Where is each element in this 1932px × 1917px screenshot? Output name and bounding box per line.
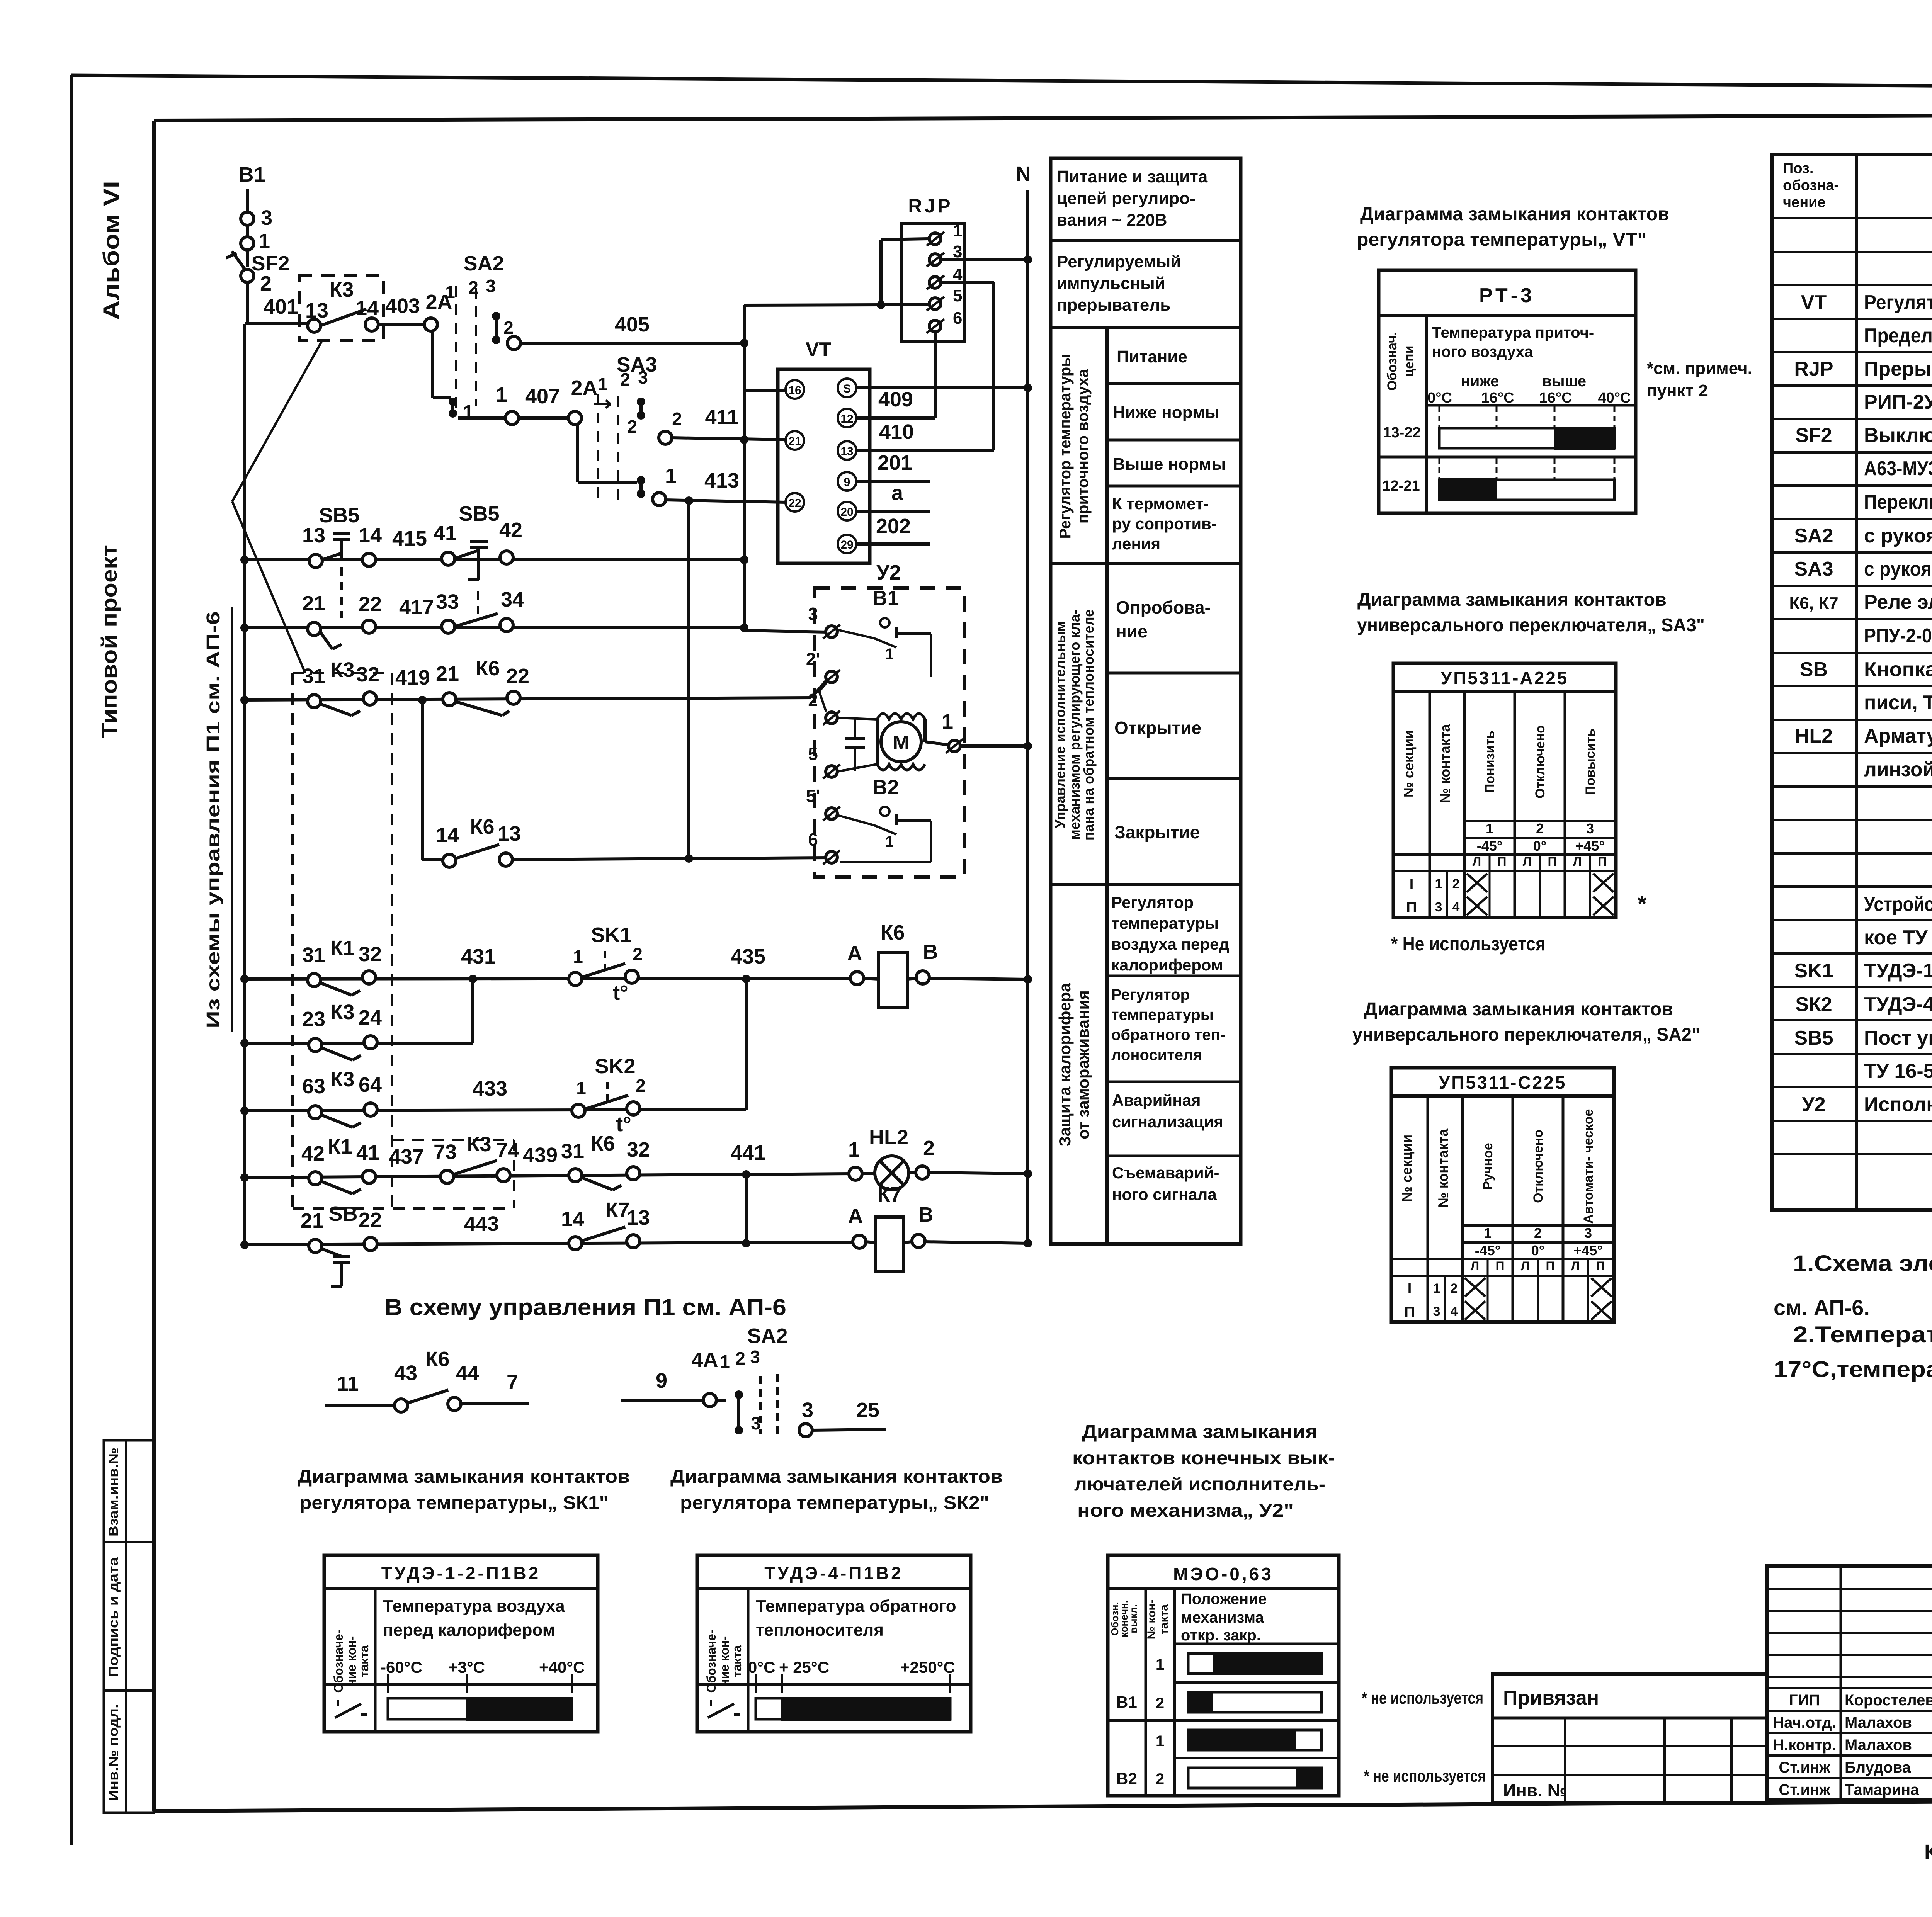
svg-text:К3: К3	[330, 658, 355, 681]
contact bar 13-22	[1439, 428, 1614, 448]
svg-text:№ секции: № секции	[1399, 1135, 1415, 1202]
vertical link 413 to closing row	[687, 501, 690, 858]
svg-text:409: 409	[878, 388, 913, 411]
svg-text:Отключено: Отключено	[1531, 1130, 1546, 1203]
svg-text:N: N	[1016, 162, 1031, 185]
svg-text:К1: К1	[330, 936, 355, 960]
svg-text:3: 3	[802, 1399, 813, 1422]
svg-text:А: А	[847, 942, 862, 965]
svg-text:1: 1	[1484, 1225, 1492, 1241]
svg-text:22: 22	[359, 1208, 382, 1232]
svg-text:1: 1	[1433, 1281, 1440, 1296]
alarm row : K1 42-41 / 437 / K3 73-74 / 439 / K6 31-32 / 441 / lamp HL2	[245, 1174, 851, 1178]
svg-text:63: 63	[302, 1075, 325, 1098]
signal reset row : SB 21-22 / 443 / K7 14-13 / coil K7	[245, 1242, 853, 1245]
svg-text:443: 443	[464, 1212, 499, 1236]
svg-text:В2: В2	[1116, 1769, 1137, 1788]
svg-text:SВ: SВ	[1800, 658, 1828, 681]
svg-text:2: 2	[260, 272, 272, 295]
svg-text:Повысить: Повысить	[1583, 729, 1598, 795]
svg-text:от замораживания: от замораживания	[1074, 990, 1092, 1139]
svg-text:№ контакта: № контакта	[1437, 724, 1453, 804]
VT pin 13	[838, 441, 856, 460]
bus: left vertical feeder	[243, 324, 246, 1245]
svg-text:*: *	[1638, 891, 1647, 917]
svg-text:Опробова-: Опробова-	[1116, 597, 1211, 617]
U2 terminal jog 2p-2	[819, 683, 826, 692]
svg-text:Пост управления кнопочный ПКЕ: Пост управления кнопочный ПКЕ 212-2У3	[1864, 1027, 1932, 1049]
RJP terminal 5	[929, 298, 941, 309]
svg-text:ТУДЭ-4- П1В2: ТУДЭ-4- П1В2	[1864, 993, 1932, 1016]
svg-text:воздуха перед: воздуха перед	[1111, 935, 1229, 953]
svg-text:импульсный: импульсный	[1057, 274, 1165, 293]
test row 21-22 / wire 417	[245, 626, 744, 629]
svg-text:Управление исполнительным: Управление исполнительным	[1052, 621, 1068, 828]
svg-text:такта: такта	[1158, 1604, 1170, 1635]
svg-text:SF2: SF2	[251, 252, 289, 275]
svg-text:А: А	[848, 1205, 863, 1228]
stamp column (Взам.инв.№ / Подпись и дата / Инв.№ подл.)	[104, 1440, 154, 1813]
svg-text:К6: К6	[425, 1348, 450, 1371]
RJP terminal 4	[929, 277, 941, 288]
svg-text:ТУ 16-542.006-83: ТУ 16-542.006-83	[1864, 1060, 1932, 1083]
heater-regulator row : K1 31-32 / wire 431 / SK1 / wire 435 / coil K6	[245, 978, 851, 979]
svg-text:Регулятор: Регулятор	[1111, 893, 1194, 911]
svg-text:Питание: Питание	[1117, 347, 1187, 366]
wire 405	[520, 342, 744, 345]
svg-text:3: 3	[486, 276, 496, 296]
svg-text:1: 1	[953, 221, 962, 240]
svg-text:202: 202	[876, 515, 911, 538]
svg-text:такта: такта	[730, 1645, 744, 1677]
interlock row : contact K3 23-24	[245, 1042, 473, 1045]
svg-text:ГИП: ГИП	[1789, 1692, 1820, 1709]
return-water row : contact K3 63-64 / wire 433 / SK2	[245, 1110, 746, 1111]
svg-text:29: 29	[840, 539, 853, 551]
svg-text:К6: К6	[470, 815, 495, 838]
svg-text:ного сигнала: ного сигнала	[1112, 1185, 1217, 1203]
VT pin 20	[838, 502, 856, 520]
svg-text:21: 21	[302, 592, 325, 615]
svg-text:1: 1	[576, 1078, 586, 1098]
svg-text:Ручное: Ручное	[1481, 1143, 1495, 1190]
svg-text:ру сопротив-: ру сопротив-	[1112, 515, 1217, 533]
svg-text:16°С: 16°С	[1481, 390, 1514, 406]
svg-text:1: 1	[885, 833, 894, 850]
svg-text:41: 41	[434, 522, 457, 545]
U2 terminal 3	[826, 626, 837, 637]
svg-text:универсального переключателя„: универсального переключателя„ SA3"	[1357, 615, 1705, 636]
svg-text:433: 433	[473, 1077, 507, 1100]
actuator U2 (dashed box)	[815, 588, 964, 877]
svg-text:откр. закр.: откр. закр.	[1181, 1627, 1261, 1644]
svg-text:Прерыватель регулируемый импул: Прерыватель регулируемый импульсный	[1864, 358, 1932, 380]
svg-text:К7: К7	[605, 1198, 630, 1222]
svg-text:2: 2	[627, 416, 637, 437]
svg-text:2: 2	[1156, 1771, 1164, 1788]
svg-text:ние: ние	[1116, 621, 1148, 641]
svg-text:Подпись и дата: Подпись и дата	[106, 1557, 121, 1677]
svg-text:3: 3	[751, 1413, 761, 1433]
svg-text:13: 13	[498, 822, 521, 845]
svg-text:403: 403	[385, 294, 420, 318]
RJP terminal 6	[929, 320, 941, 332]
svg-text:К3: К3	[330, 278, 354, 301]
svg-text:44: 44	[456, 1361, 479, 1385]
svg-text:ного воздуха: ного воздуха	[1432, 343, 1533, 360]
svg-text:SВ5: SВ5	[1794, 1027, 1833, 1049]
inner drawing frame	[154, 114, 1932, 121]
U2 capacitor	[837, 718, 877, 719]
svg-text:-60°С: -60°С	[381, 1658, 422, 1676]
svg-text:Регулятор: Регулятор	[1111, 986, 1190, 1003]
svg-text:SK1: SK1	[1794, 960, 1833, 982]
svg-text:12-21: 12-21	[1382, 478, 1420, 494]
svg-text:0°С: 0°С	[748, 1658, 776, 1676]
svg-text:К3: К3	[330, 1068, 355, 1091]
svg-text:такта: такта	[357, 1645, 371, 1677]
svg-text:32: 32	[359, 943, 382, 966]
svg-text:контактов конечных вык-: контактов конечных вык-	[1072, 1448, 1335, 1468]
svg-text:У2: У2	[1802, 1093, 1825, 1116]
svg-text:приточного воздуха: приточного воздуха	[1075, 369, 1092, 523]
svg-text:SК2: SК2	[1795, 993, 1832, 1016]
svg-text:ТУДЭ-1-2-П1В2: ТУДЭ-1-2-П1В2	[381, 1563, 541, 1583]
svg-text:+40°С: +40°С	[539, 1658, 585, 1676]
svg-text:415: 415	[392, 527, 427, 550]
svg-text:Ниже нормы: Ниже нормы	[1113, 403, 1219, 422]
svg-text:Ст.инж: Ст.инж	[1779, 1781, 1830, 1798]
wire VT-S to N	[856, 386, 1028, 389]
svg-text:407: 407	[525, 385, 560, 408]
svg-text:№ кон-: № кон-	[1145, 1600, 1158, 1640]
svg-text:Устройство терморегулирующее д: Устройство терморегулирующее дилатометри…	[1864, 893, 1932, 916]
svg-text:лючателей исполнитель-: лючателей исполнитель-	[1074, 1474, 1325, 1495]
svg-text:В2: В2	[872, 776, 899, 799]
RJP terminal 1	[929, 233, 941, 245]
svg-text:выше: выше	[1542, 373, 1586, 390]
svg-text:П: П	[1548, 855, 1557, 868]
svg-text:14: 14	[436, 824, 459, 847]
riser node 405/411	[743, 305, 746, 631]
svg-text:I: I	[1410, 876, 1414, 892]
svg-text:К6: К6	[881, 921, 905, 944]
svg-text:лоносителя: лоносителя	[1111, 1047, 1202, 1064]
svg-text:1: 1	[665, 464, 677, 488]
svg-text:* не используется: * не используется	[1364, 1767, 1486, 1786]
svg-text:SB5: SB5	[319, 504, 359, 527]
svg-text:14: 14	[359, 524, 382, 547]
svg-text:Диаграмма замыкания контактов: Диаграмма замыкания контактов	[670, 1467, 1003, 1487]
svg-text:Температура приточ-: Температура приточ-	[1432, 324, 1594, 341]
svg-text:5': 5'	[806, 786, 820, 806]
svg-text:Обознач.: Обознач.	[1385, 332, 1400, 391]
svg-text:В1: В1	[872, 586, 899, 610]
svg-text:Съемаварий-: Съемаварий-	[1112, 1164, 1219, 1182]
svg-text:Регулятор температуры: Регулятор температуры	[1057, 354, 1074, 539]
svg-text:Л: Л	[1523, 855, 1531, 868]
svg-text:401: 401	[264, 295, 298, 318]
terminal block RJP	[901, 223, 964, 341]
wire 201	[856, 480, 930, 483]
svg-text:410: 410	[879, 420, 914, 444]
svg-text:2: 2	[808, 690, 818, 710]
svg-text:пункт 2: пункт 2	[1647, 381, 1708, 400]
svg-text:64: 64	[359, 1073, 382, 1096]
svg-text:2': 2'	[806, 649, 820, 669]
svg-text:Л: Л	[1573, 855, 1582, 868]
wire down to SA3 position 1	[576, 423, 579, 482]
svg-text:Закрытие: Закрытие	[1114, 822, 1200, 842]
wire from 2A down to SA2 position 1	[431, 331, 434, 398]
svg-text:0°: 0°	[1533, 838, 1546, 854]
svg-text:1: 1	[445, 282, 455, 302]
title block	[1767, 1566, 1932, 1800]
svg-text:Диаграмма замыкания контактов: Диаграмма замыкания контактов	[1360, 204, 1669, 224]
svg-text:цепей регулиро-: цепей регулиро-	[1057, 189, 1196, 208]
svg-text:с рукояткой овальной формы УП: с рукояткой овальной формы УП5311-С225	[1864, 525, 1932, 547]
svg-text:2: 2	[923, 1137, 935, 1160]
svg-text:405: 405	[615, 313, 650, 336]
svg-text:437: 437	[389, 1145, 424, 1168]
svg-text:SF2: SF2	[1795, 424, 1832, 447]
svg-text:Диаграмма замыкания контактов: Диаграмма замыкания контактов	[298, 1467, 630, 1487]
wire 409 : RJP-6 to VT-12	[934, 332, 937, 418]
svg-text:24: 24	[359, 1006, 382, 1029]
diagram table UP5311-A225	[1393, 663, 1616, 918]
svg-text:431: 431	[461, 945, 496, 968]
svg-text:22: 22	[788, 497, 801, 510]
svg-text:21: 21	[301, 1209, 324, 1232]
VT pin 16	[786, 380, 804, 399]
svg-text:7: 7	[507, 1371, 518, 1394]
contact bar 12-21	[1439, 480, 1614, 500]
svg-text:1: 1	[1156, 1656, 1164, 1673]
svg-text:SA2: SA2	[1794, 525, 1833, 547]
svg-text:температуры: температуры	[1111, 1006, 1214, 1023]
svg-text:* Не используется: * Не используется	[1391, 933, 1546, 955]
svg-text:Кнопка КЕ-011У3, исп. 2, кра: Кнопка КЕ-011У3, исп. 2, красный, без на…	[1864, 658, 1932, 681]
svg-text:419: 419	[395, 666, 430, 689]
svg-text:П: П	[1598, 855, 1607, 868]
svg-text:цепи: цепи	[1402, 345, 1417, 377]
svg-text:2: 2	[503, 318, 514, 338]
svg-text:43: 43	[394, 1361, 417, 1385]
node 2 of SA3 / wire 411	[659, 431, 672, 444]
breaker SF2	[232, 251, 246, 270]
svg-text:регулятора температуры„ SК2": регулятора температуры„ SК2"	[680, 1493, 989, 1513]
svg-text:Из схемы управления П1 см. АП-: Из схемы управления П1 см. АП-6	[203, 611, 224, 1028]
svg-text:ТУДЭ-1- 2 - П1В2: ТУДЭ-1- 2 - П1В2	[1864, 960, 1932, 982]
svg-text:ние кон-: ние кон-	[718, 1636, 731, 1687]
svg-text:9: 9	[844, 476, 850, 489]
svg-text:К6: К6	[591, 1132, 615, 1155]
svg-text:Л: Л	[1471, 1259, 1479, 1273]
svg-text:Малахов: Малахов	[1845, 1737, 1912, 1754]
svg-text:I: I	[1408, 1281, 1412, 1297]
svg-text:73: 73	[434, 1140, 457, 1164]
VT pin S	[838, 379, 856, 397]
svg-text:Выше нормы: Выше нормы	[1113, 455, 1226, 474]
svg-text:Взам.инв.№: Взам.инв.№	[106, 1448, 121, 1536]
svg-text:-45°: -45°	[1475, 1242, 1500, 1258]
svg-text:Температура обратного: Температура обратного	[756, 1597, 956, 1616]
svg-text:П: П	[1496, 1259, 1505, 1273]
svg-text:К6: К6	[476, 657, 500, 680]
svg-text:33: 33	[436, 590, 459, 614]
svg-text:Выключатель автоматический одн: Выключатель автоматический однополюсный	[1864, 424, 1932, 447]
svg-text:Блудова: Блудова	[1845, 1759, 1911, 1776]
svg-text:1: 1	[463, 401, 474, 424]
svg-text:3: 3	[261, 206, 272, 229]
svg-text:2.Температура приточного воз: 2.Температура приточного воздуха для П7-…	[1793, 1322, 1932, 1347]
svg-text:SA2: SA2	[747, 1324, 787, 1348]
svg-text:Предел регулирования 0-40°С,ТУ: Предел регулирования 0-40°С,ТУ25-02.202.…	[1864, 325, 1932, 347]
svg-text:0°: 0°	[1531, 1242, 1544, 1258]
svg-text:с рукояткой револьверной формы: с рукояткой револьверной формы УП5311-А2…	[1864, 558, 1932, 580]
svg-text:0°С: 0°С	[1427, 390, 1452, 406]
svg-text:Диаграмма замыкания контактов: Диаграмма замыкания контактов	[1364, 999, 1673, 1020]
svg-text:П: П	[1596, 1259, 1605, 1273]
svg-text:У2: У2	[876, 561, 901, 584]
svg-text:Аварийная: Аварийная	[1112, 1091, 1201, 1109]
svg-text:1: 1	[720, 1351, 730, 1371]
svg-text:VТ: VТ	[1801, 291, 1827, 314]
svg-text:1: 1	[496, 383, 507, 406]
node 2A	[424, 318, 437, 331]
svg-text:температуры: температуры	[1111, 914, 1219, 932]
svg-text:Поз.: Поз.	[1783, 160, 1813, 177]
svg-text:5: 5	[808, 744, 818, 764]
svg-text:№ контакта: № контакта	[1435, 1128, 1451, 1208]
svg-text:1: 1	[942, 710, 953, 733]
svg-text:УП5311-С225: УП5311-С225	[1439, 1072, 1567, 1093]
svg-text:42: 42	[301, 1142, 325, 1165]
svg-text:4: 4	[1451, 1304, 1458, 1319]
diagram table TUDE-4-P1V2 (SK2)	[697, 1555, 971, 1732]
diagram table UP5311-C225	[1391, 1068, 1614, 1322]
svg-text:13: 13	[302, 524, 325, 547]
svg-text:УП5311-А225: УП5311-А225	[1441, 668, 1569, 688]
VT pin 12	[838, 409, 856, 427]
svg-text:+ 25°С: + 25°С	[779, 1658, 829, 1676]
diagram table PT-3	[1379, 270, 1636, 513]
wire 403	[378, 323, 425, 326]
svg-text:+45°: +45°	[1573, 1242, 1602, 1258]
svg-text:механизмом регулирующего кла-: механизмом регулирующего кла-	[1067, 610, 1083, 840]
dashed relay boundary K3	[293, 672, 392, 674]
svg-text:Арматура светосигнальная с кр: Арматура светосигнальная с красной	[1864, 725, 1932, 747]
svg-text:2: 2	[620, 369, 630, 389]
svg-text:Л: Л	[1473, 855, 1481, 868]
svg-text:SA2: SA2	[463, 252, 504, 275]
wire 202	[856, 542, 930, 546]
svg-text:П: П	[1406, 899, 1417, 916]
svg-text:2: 2	[1156, 1695, 1164, 1712]
svg-text:3: 3	[1586, 821, 1594, 836]
svg-text:13: 13	[627, 1206, 650, 1229]
svg-text:сигнализация: сигнализация	[1112, 1113, 1223, 1131]
branch to VT pin 16	[744, 389, 785, 392]
svg-text:Инв.№ подл.: Инв.№ подл.	[106, 1704, 121, 1801]
svg-text:см. АП-6.: см. АП-6.	[1774, 1295, 1870, 1320]
svg-text:41: 41	[356, 1141, 379, 1164]
svg-text:2: 2	[672, 409, 682, 429]
opening row : contact K3 31-32 / wire 419 / contact K6 21-22	[245, 698, 811, 700]
svg-text:перед калорифером: перед калорифером	[383, 1621, 555, 1640]
svg-text:VT: VT	[806, 338, 832, 361]
svg-text:МЭО-0,63: МЭО-0,63	[1173, 1564, 1274, 1584]
leader line from K3	[232, 340, 322, 501]
svg-text:Нач.отд.: Нач.отд.	[1773, 1714, 1836, 1731]
svg-text:универсального переключателя„: универсального переключателя„ SA2"	[1352, 1025, 1700, 1045]
svg-text:Копировал: Ш: Копировал: Ш	[1924, 1841, 1932, 1864]
svg-text:SB5: SB5	[459, 502, 499, 525]
svg-text:В1: В1	[1116, 1693, 1137, 1711]
wire to actuator (Опробование)	[740, 624, 748, 632]
svg-text:23: 23	[302, 1008, 325, 1031]
svg-text:1: 1	[573, 947, 583, 967]
svg-text:писи, ТУ 16-542.015-84: писи, ТУ 16-542.015-84	[1864, 692, 1932, 714]
svg-text:К3: К3	[467, 1133, 492, 1156]
svg-text:2: 2	[1536, 821, 1544, 836]
svg-text:+45°: +45°	[1575, 838, 1604, 854]
svg-text:SA3: SA3	[1794, 558, 1833, 580]
svg-text:34: 34	[501, 588, 524, 611]
svg-text:+3°С: +3°С	[448, 1658, 485, 1676]
svg-text:П: П	[1498, 855, 1507, 868]
svg-text:ниже: ниже	[1461, 373, 1499, 390]
svg-text:РИП-2УХЛ4,~220В.50Гц ТУ36-1748: РИП-2УХЛ4,~220В.50Гц ТУ36-1748-74	[1864, 391, 1932, 413]
svg-text:31: 31	[302, 943, 325, 967]
U2 terminal 5	[826, 766, 837, 777]
svg-text:21: 21	[436, 662, 459, 685]
svg-text:обозна-: обозна-	[1783, 177, 1839, 194]
svg-text:прерыватель: прерыватель	[1057, 296, 1170, 314]
svg-text:M: M	[893, 732, 909, 754]
svg-text:2: 2	[1451, 1281, 1458, 1296]
svg-text:16°С: 16°С	[1539, 390, 1572, 406]
svg-text:Реле электромагнитное универс: Реле электромагнитное универсальное	[1864, 591, 1932, 614]
diagram table TUDE-1-2-P1V2 (SK1)	[324, 1555, 598, 1732]
U2 terminal 2'	[826, 671, 837, 683]
svg-text:калорифером: калорифером	[1111, 956, 1223, 974]
svg-text:3: 3	[1433, 1304, 1440, 1319]
MEO contact bars	[1188, 1654, 1321, 1674]
vertical link 411 to test rows	[740, 435, 748, 444]
svg-text:К термомет-: К термомет-	[1112, 495, 1209, 513]
node 2 of SA2 / wire 405 start	[507, 336, 520, 350]
diagram table MEO-0,63	[1108, 1555, 1339, 1796]
svg-text:Отключено: Отключено	[1533, 725, 1548, 799]
svg-text:выкл.: выкл.	[1128, 1604, 1139, 1633]
svg-text:Инв. №: Инв. №	[1503, 1780, 1567, 1800]
svg-text:Коростелев: Коростелев	[1845, 1692, 1932, 1709]
svg-text:В: В	[923, 940, 938, 964]
relay contact K3 13-14 (dashed box)	[299, 276, 383, 340]
svg-text:25: 25	[856, 1399, 879, 1422]
svg-text:RJP: RJP	[908, 195, 952, 217]
outer sheet border	[71, 75, 1932, 90]
svg-text:2: 2	[636, 1076, 646, 1096]
VT pin 21	[786, 431, 804, 450]
pushbutton SB5 row 13-14 / wire 415	[245, 558, 744, 561]
svg-text:1.Схема электрическая принци: 1.Схема электрическая принципиальная упр…	[1793, 1251, 1932, 1276]
svg-text:К3: К3	[330, 1001, 355, 1024]
VT pin 22	[786, 493, 804, 512]
svg-text:20: 20	[840, 506, 853, 518]
svg-text:439: 439	[523, 1144, 558, 1167]
